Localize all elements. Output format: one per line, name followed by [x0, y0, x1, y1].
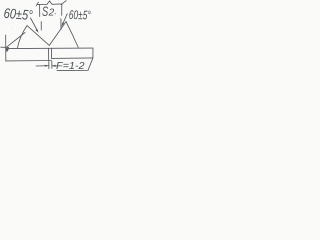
- leader arrow left (60deg): [31, 18, 38, 31]
- extension line left: [39, 4, 41, 16]
- arrowhead surface leader: [5, 48, 9, 53]
- scan speckle noise: [8, 6, 91, 73]
- root gap right edge: [50, 48, 52, 58]
- arrowhead gap dim left: [45, 65, 49, 67]
- gap extension line right below: [51, 61, 53, 68]
- weld joint cross-section drawing: [0, 0, 96, 76]
- plate right edge: [92, 48, 94, 58]
- svg-text:60±5°: 60±5°: [3, 5, 33, 23]
- surface tick: [1, 46, 9, 48]
- plate top surface: [6, 47, 93, 50]
- dim line left serif: [36, 2, 38, 6]
- svg-text:2: 2: [48, 7, 55, 18]
- root gap left edge: [48, 48, 50, 61]
- flange outer face left: [17, 26, 27, 49]
- stub tick right: [60, 19, 62, 30]
- extension line right: [61, 4, 63, 15]
- flange outer face right: [66, 22, 78, 48]
- plate left edge: [5, 35, 7, 61]
- svg-text:60±5°: 60±5°: [69, 8, 91, 23]
- arrowhead left leader: [35, 29, 38, 33]
- plate bottom left: [6, 60, 52, 62]
- dim line right serif: [61, 1, 66, 5]
- surface leader line: [7, 33, 26, 48]
- arrowhead right leader: [62, 22, 65, 26]
- groove face right: [49, 22, 66, 46]
- gap dim line right stub: [52, 65, 57, 67]
- plate bottom right: [52, 57, 94, 60]
- groove face left: [27, 26, 49, 46]
- arrowhead gap dim right: [52, 65, 56, 67]
- leader arrow right (60deg): [63, 14, 68, 25]
- label underline leader: [57, 59, 93, 71]
- gap extension line left below: [48, 62, 50, 69]
- svg-text:S: S: [42, 4, 48, 19]
- dimension line S2 top: [37, 1, 62, 4]
- gap dim line left: [36, 65, 49, 67]
- dot after S2: [55, 13, 56, 14]
- stub tick left: [40, 22, 42, 31]
- svg-text:F=1-2: F=1-2: [56, 60, 85, 72]
